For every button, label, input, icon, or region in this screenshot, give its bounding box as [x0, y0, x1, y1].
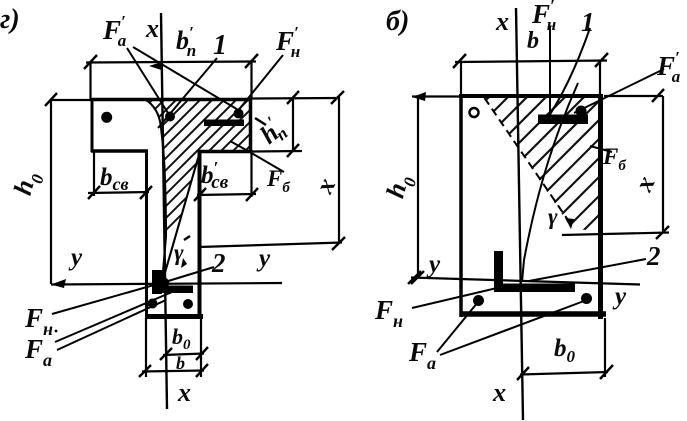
- section left edge: [459, 94, 463, 317]
- corner junction blob: [157, 277, 169, 289]
- b'_sv right extension: [250, 153, 252, 197]
- leader F'a to dot3: [133, 47, 240, 111]
- h0 top extension: [50, 99, 92, 101]
- svg-text:b: b: [527, 28, 539, 54]
- F_n leader: [52, 281, 168, 314]
- left edge extension up: [460, 61, 462, 96]
- svg-text:b: b: [176, 353, 185, 373]
- b'_sv tick right: [246, 188, 258, 201]
- arrowhead left end of y line / h0 bottom: [51, 279, 66, 288]
- svg-text:б): б): [386, 6, 409, 37]
- svg-text:у: у: [68, 244, 83, 271]
- b_sv tick left: [88, 186, 100, 199]
- b0 tick left: [160, 348, 172, 360]
- right edge extension below: [604, 318, 606, 377]
- bottom rebar dot right: [183, 299, 193, 309]
- tick right b'p: [245, 54, 258, 68]
- svg-text:у: у: [612, 283, 627, 310]
- b0 tick right: [196, 347, 208, 360]
- h0 arrow left end: [412, 92, 426, 101]
- dot3 flange right: [234, 109, 244, 119]
- x axis vertical: [161, 13, 167, 409]
- thick L mark right fig horizontal: [494, 284, 575, 293]
- tick at extension end: [652, 89, 664, 102]
- compression bar F'n: [204, 120, 244, 127]
- b_sv tick right: [140, 186, 152, 199]
- leader 1 into hatch: [158, 58, 217, 128]
- x dim vertical right: [662, 96, 664, 233]
- h'p tick top: [287, 91, 299, 104]
- section bottom edge: [460, 311, 606, 317]
- bottom rebar dot right right fig: [581, 293, 592, 304]
- tick left b'p: [84, 55, 97, 69]
- compression bar right fig: [538, 115, 588, 125]
- inclined neutral axis line: [162, 153, 200, 283]
- extension flange left up: [89, 62, 91, 99]
- h'p dimension vertical: [292, 97, 294, 152]
- b_sv left extension: [93, 152, 95, 196]
- x axis vertical: [516, 8, 523, 420]
- top edge extension right: [604, 95, 663, 97]
- h0 dimension vertical: [417, 96, 419, 278]
- section top edge: [459, 94, 603, 98]
- trace line to corner: [522, 83, 578, 282]
- y line through corner: [411, 278, 640, 285]
- flange left edge: [91, 98, 94, 152]
- web right extension below: [200, 318, 202, 377]
- svg-text:2: 2: [646, 241, 661, 271]
- leader 2 to corner: [165, 267, 214, 282]
- svg-text:γ: γ: [548, 204, 558, 229]
- x dimension vertical right: [338, 97, 340, 244]
- b dimension line top: [455, 61, 607, 63]
- h0 extension left: [412, 95, 460, 97]
- leader F'a to bar dot2: [127, 48, 168, 113]
- bottom rebar dot left right fig: [473, 295, 484, 306]
- thick L mark right fig vertical: [494, 251, 503, 289]
- svg-text:x: x: [145, 14, 159, 43]
- F_a leader 2: [57, 300, 166, 350]
- right edge extension up: [599, 60, 601, 96]
- hatch compression zone (left fig): [0, 93, 303, 292]
- b'_sv tick left: [194, 188, 206, 201]
- F_a leader 1 right fig: [437, 302, 478, 352]
- b_sv dimension line: [88, 192, 149, 193]
- b tick left: [453, 54, 466, 68]
- flange bottom left overhang: [91, 149, 148, 153]
- svg-text:г): г): [0, 4, 20, 35]
- web left extension below: [145, 318, 147, 377]
- svg-text:b′п: b′п: [176, 23, 196, 60]
- svg-text:F′a: F′a: [102, 12, 127, 50]
- x dim bottom tick: [656, 226, 669, 239]
- y line right (x-dim bottom extension): [199, 243, 342, 248]
- y long line through corner: [51, 283, 282, 285]
- b0 tick left: [517, 367, 529, 380]
- svg-text:2: 2: [211, 248, 226, 278]
- b tick left: [139, 365, 151, 377]
- small dash outside right edge: [255, 118, 266, 125]
- leader 2 to corner: [529, 259, 646, 281]
- b'p top dimension line: [86, 62, 256, 63]
- gamma small arrow: [181, 258, 187, 268]
- section bottom edge: [145, 314, 203, 319]
- svg-text:F′н: F′н: [275, 23, 300, 61]
- y line left tick: [408, 271, 421, 284]
- h0 bottom tick: [411, 271, 424, 284]
- b tick right: [595, 53, 608, 67]
- hatch compression zone (right fig): [346, 90, 687, 240]
- bar dot: [576, 106, 587, 117]
- F'a leader: [574, 69, 664, 113]
- b'_sv dimension line: [197, 194, 256, 195]
- F'n vertical leader: [549, 26, 551, 114]
- h0 top tick: [45, 93, 57, 106]
- svg-text:F′н: F′н: [531, 0, 556, 34]
- extension flange right up: [250, 62, 252, 99]
- dot1 flange left: [101, 112, 112, 123]
- flange top edge: [90, 98, 252, 102]
- svg-text:у: у: [426, 251, 441, 278]
- bottom rebar dot left: [148, 299, 158, 309]
- dot2 flange middle: [165, 112, 175, 122]
- dashed neutral axis: [485, 98, 569, 220]
- h'p tick bottom: [287, 144, 299, 157]
- web left edge: [145, 150, 148, 318]
- F_a leader 2 right fig: [440, 301, 584, 355]
- leader F'n to bar: [237, 55, 283, 112]
- h'p extension right of flange top: [252, 97, 340, 100]
- svg-text:у: у: [256, 245, 271, 272]
- x dim tick bottom: [332, 237, 345, 250]
- F_n leader right fig: [412, 288, 497, 308]
- NA arrowhead: [565, 218, 574, 229]
- section right edge: [598, 94, 603, 319]
- b0 dimension line: [163, 354, 204, 356]
- b dimension line: [142, 371, 204, 372]
- x dim bottom extension line: [562, 233, 669, 236]
- flange right edge: [249, 98, 253, 153]
- F_a leader 1: [55, 292, 172, 342]
- curve: left boundary of compression zone: [146, 100, 166, 278]
- web right edge: [198, 150, 202, 318]
- svg-text:F′a: F′a: [656, 48, 681, 86]
- flange bottom right overhang: [198, 150, 253, 154]
- arrowhead on b'p line at axis: [149, 62, 163, 71]
- small dash near inclined line: [184, 236, 190, 240]
- h'p bottom extension: [252, 150, 302, 153]
- Fb leader dash: [590, 146, 612, 152]
- leader 1 curve to bar: [545, 28, 590, 122]
- b tick right: [196, 364, 208, 377]
- svg-text:x: x: [492, 378, 506, 407]
- thick L corner mark (bent bar) vertical: [152, 270, 162, 294]
- period after F_n: [55, 330, 58, 333]
- Fb leader: [230, 141, 284, 172]
- b0 dimension line right fig: [520, 372, 608, 375]
- svg-text:x: x: [177, 378, 191, 407]
- b0 tick right: [600, 365, 613, 379]
- thick L corner mark horizontal: [152, 286, 193, 294]
- svg-text:x: x: [495, 7, 509, 36]
- open circle rebar top left: [470, 108, 479, 117]
- x dim tick top: [331, 91, 344, 104]
- h0 dimension vertical: [50, 99, 52, 284]
- svg-text:1: 1: [213, 30, 227, 61]
